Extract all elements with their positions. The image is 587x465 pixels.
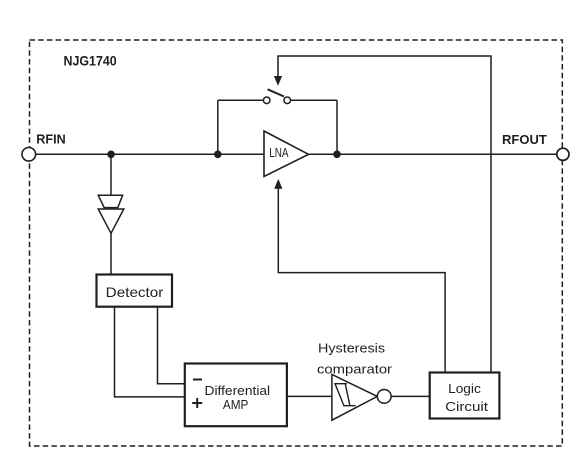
label minus input (193, 379, 202, 381)
label plus input (192, 398, 202, 408)
wire bypass right vertical (336, 100, 338, 154)
hysteresis glyph outer (335, 384, 356, 406)
switch contact left (263, 97, 270, 104)
hysteresis glyph inner slant (345, 384, 350, 406)
wire bypass right horizontal (290, 99, 337, 101)
wire detector plus output to differential amp (115, 307, 185, 397)
comparator U2 triangle (332, 375, 377, 421)
detector box (97, 275, 173, 307)
svg-text:Detector: Detector (106, 284, 164, 300)
wire coupler drop from main rail (110, 154, 112, 196)
svg-text:Logic: Logic (448, 381, 481, 396)
node junction at LNA input / bypass left (214, 151, 222, 159)
svg-text:NJG1740: NJG1740 (64, 53, 117, 68)
wire bypass left horizontal (218, 99, 264, 101)
coupler triangle element (98, 209, 124, 233)
arrow up at LNA (274, 179, 282, 189)
op-amp LNA triangle (264, 131, 309, 177)
wire detector minus output to differential amp (158, 307, 185, 384)
svg-text:RFOUT: RFOUT (502, 132, 547, 147)
comparator inverting output bubble (377, 390, 391, 404)
coupler trapezoid element (98, 195, 122, 207)
arrow down at switch (274, 76, 282, 86)
terminal RFIN pad (22, 148, 36, 162)
svg-text:AMP: AMP (223, 398, 249, 412)
svg-text:Circuit: Circuit (445, 399, 488, 414)
chip boundary dashed border (30, 40, 563, 446)
wire differential amp output to comparator (287, 395, 332, 397)
node junction at coupler tap (107, 151, 115, 159)
wire LNA control: logic circuit top to LNA arrow (278, 188, 445, 373)
switch blade (268, 89, 284, 96)
svg-text:LNA: LNA (269, 146, 289, 160)
wire bypass left vertical (217, 100, 219, 154)
svg-text:comparator: comparator (317, 362, 393, 377)
logic circuit box (430, 373, 500, 419)
wire coupler to detector (110, 232, 112, 276)
terminal RFOUT pad (557, 148, 569, 160)
wire main RF rail (36, 153, 557, 155)
wire comparator output to logic circuit (391, 395, 430, 397)
node junction at LNA output / bypass right (333, 151, 341, 159)
switch contact right (284, 97, 291, 104)
differential amp U1 box (185, 364, 287, 427)
svg-text:Hysteresis: Hysteresis (318, 341, 386, 356)
wire switch control: logic circuit top to switch arrow (278, 56, 491, 373)
svg-text:Differential: Differential (205, 383, 271, 398)
svg-text:RFIN: RFIN (36, 131, 65, 146)
